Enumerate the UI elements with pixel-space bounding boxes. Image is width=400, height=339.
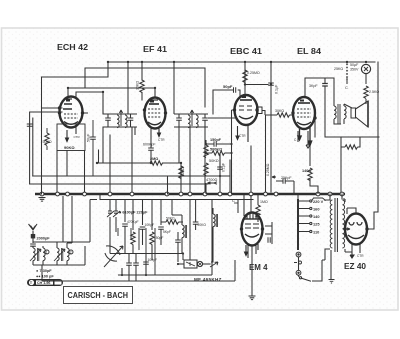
wire right B+ vertical	[377, 62, 379, 212]
resistor 2.5K field	[364, 86, 380, 104]
wire avc rail	[33, 176, 230, 194]
trimmer arrow T1	[30, 249, 41, 261]
capacitor 0.1uF decoupling	[268, 83, 278, 94]
EM4 pin arrows	[245, 244, 259, 256]
svg-text:220 V: 220 V	[313, 199, 324, 204]
capacitor grid tank	[27, 124, 33, 126]
speaker	[351, 101, 368, 127]
antenna coil T2	[57, 243, 73, 265]
svg-text:C: C	[345, 85, 348, 90]
svg-text:CH 1-96: CH 1-96	[37, 281, 50, 285]
wire screen rail	[68, 88, 155, 114]
wire antenna bottom rail	[33, 246, 85, 265]
ground at bus left	[39, 198, 46, 202]
svg-text:470KpF: 470KpF	[127, 220, 139, 224]
tube EL84	[293, 97, 315, 148]
svg-text:150pF: 150pF	[210, 138, 222, 142]
capacitor 2000pF antenna	[30, 237, 50, 249]
resistor 1M vert	[179, 166, 185, 179]
wire speaker box bottom	[325, 78, 379, 192]
svg-text:0.25MΩ: 0.25MΩ	[266, 163, 270, 176]
svg-text:2.5KΩ: 2.5KΩ	[369, 90, 379, 94]
wire EF41 screen feed	[141, 62, 143, 100]
wire under ECH42 drop	[84, 151, 86, 193]
wire screen sub rail	[85, 68, 205, 107]
svg-text:CTR: CTR	[74, 135, 81, 139]
wire osc feedback	[190, 200, 196, 261]
junction dots mid	[96, 87, 233, 276]
svg-text:CTR: CTR	[158, 138, 165, 142]
osc coil mid	[172, 208, 218, 262]
svg-text:CARISCH - BACH: CARISCH - BACH	[68, 291, 129, 300]
capacitor 3KpF tone	[309, 84, 328, 89]
svg-text:50KΩ: 50KΩ	[43, 140, 52, 144]
wire mid rail 2M	[97, 150, 181, 163]
fuse	[294, 261, 302, 264]
legend trimmers	[36, 269, 54, 279]
svg-text:140: 140	[313, 214, 320, 219]
box CARISCH-BACH	[64, 287, 133, 304]
svg-text:1: 1	[46, 251, 48, 255]
svg-text:30KΩ: 30KΩ	[136, 81, 140, 90]
wire EL84 return	[314, 120, 316, 137]
svg-text:50pF: 50pF	[223, 84, 233, 89]
voltage selector	[298, 194, 325, 250]
wire grid bus EBC	[220, 110, 235, 194]
svg-text:● 7-30pF: ● 7-30pF	[36, 269, 52, 273]
capacitor 50pF coupling	[223, 84, 236, 93]
tube rim pins	[58, 106, 369, 230]
power transformer	[322, 198, 350, 260]
svg-text:EZ 40: EZ 40	[344, 262, 367, 271]
svg-text:2000pF: 2000pF	[37, 237, 51, 241]
wire left rail 1	[30, 108, 62, 184]
wire bottom rail A	[118, 199, 212, 275]
svg-text:50μF: 50μF	[350, 63, 359, 67]
svg-text:CTR: CTR	[239, 134, 246, 138]
wire AVC upper rail	[42, 62, 109, 77]
mains terminal	[329, 280, 335, 284]
volume potentiometer	[204, 140, 212, 194]
wire osc mid rail	[110, 217, 183, 254]
svg-text:0.1μF: 0.1μF	[222, 163, 226, 172]
wire EL84 plate link	[305, 78, 334, 104]
svg-text:EF 41: EF 41	[143, 44, 167, 54]
svg-text:●● 100 pF: ●● 100 pF	[36, 275, 54, 279]
wire drop x271	[270, 86, 272, 193]
svg-text:50KΩ: 50KΩ	[166, 217, 175, 221]
capacitor 50uF 350V electrolytic	[350, 63, 371, 84]
svg-text:500KΩ: 500KΩ	[210, 148, 222, 152]
svg-text:100pF: 100pF	[148, 258, 158, 262]
padder caps row	[107, 199, 172, 260]
antenna coil T1	[33, 246, 49, 265]
logo stamp	[27, 279, 63, 286]
capacitor 600KpF	[143, 139, 156, 163]
wire EL84 grid leak	[265, 115, 267, 192]
wire low rail links	[118, 228, 155, 281]
EZ40 connections	[343, 199, 378, 255]
svg-text:EL 84: EL 84	[297, 46, 321, 56]
resistor 140 cathode EL84	[302, 138, 318, 194]
svg-text:1MΩ: 1MΩ	[181, 167, 185, 175]
resistor 2M mid	[150, 157, 163, 165]
capacitor 150pF det	[206, 138, 232, 147]
tube EZ40 rectifier	[345, 214, 367, 259]
svg-text:50KΩ: 50KΩ	[209, 159, 219, 163]
svg-text:30KΩ: 30KΩ	[275, 109, 284, 113]
svg-text:350V: 350V	[350, 68, 359, 72]
svg-text:CTR: CTR	[357, 254, 364, 258]
svg-text:ECH 42: ECH 42	[57, 42, 88, 52]
svg-text:0.25MΩ: 0.25MΩ	[247, 71, 260, 75]
resistor 500K det	[206, 148, 232, 156]
svg-text:90KΩ: 90KΩ	[64, 145, 75, 150]
wire bottom rail B	[42, 260, 235, 281]
wire grid tank gap	[29, 124, 31, 126]
ground EM4	[249, 296, 256, 300]
wire det drop 1	[219, 155, 221, 192]
oscillator grid box	[45, 120, 96, 176]
svg-text:50μF: 50μF	[87, 133, 91, 142]
wire 1M drop	[180, 163, 182, 192]
tube ECH42	[54, 97, 88, 135]
ground bus	[35, 193, 345, 196]
resistor 500K grid EL84	[262, 109, 293, 117]
EM4 feed network	[232, 195, 272, 296]
tuning gang	[104, 246, 139, 281]
resistor field coil	[341, 137, 360, 149]
resistor 50K	[45, 133, 49, 146]
wire grid-leak drop	[131, 127, 133, 192]
wire EBC cath drop	[204, 128, 206, 192]
capacitor 0.1uF af	[209, 159, 226, 176]
svg-text:125: 125	[313, 222, 320, 227]
tube EF41	[145, 98, 166, 143]
antenna	[29, 224, 38, 243]
EL84 pin arrows	[298, 127, 312, 146]
svg-text:EBC 41: EBC 41	[230, 46, 262, 56]
wire osc box drops	[57, 127, 103, 192]
svg-text:20KΩ: 20KΩ	[198, 223, 207, 227]
svg-text:140Ω: 140Ω	[302, 169, 311, 173]
svg-text:110: 110	[313, 230, 319, 235]
EBC41 pin arrows	[236, 126, 248, 142]
capacitor 50uF cathode	[90, 137, 96, 139]
svg-text:1MΩ: 1MΩ	[260, 200, 268, 204]
resistor 0.25M EBC plate	[243, 70, 260, 83]
tube EM4 magic eye	[242, 213, 263, 259]
pilot lamp 1	[296, 252, 301, 257]
wire transformer top feeds	[100, 194, 342, 200]
svg-text:0.1μF: 0.1μF	[275, 84, 279, 94]
wire IFT2 drop	[155, 88, 190, 192]
svg-text:600KpF: 600KpF	[143, 143, 156, 147]
svg-text:■ 6100pF 220pF: ■ 6100pF 220pF	[119, 211, 148, 215]
resistor 50K osc	[161, 217, 183, 225]
wire det drop 2	[229, 160, 231, 192]
IF transformer IFT2	[174, 107, 235, 135]
svg-text:5KpF: 5KpF	[163, 230, 171, 234]
wire af rail	[30, 183, 208, 185]
junction dots top rail	[67, 61, 367, 93]
svg-text:3KpF: 3KpF	[309, 84, 318, 88]
tube EBC41	[235, 95, 263, 138]
svg-text:10KpF: 10KpF	[145, 223, 155, 227]
capacitor 129KpF bypass	[272, 176, 294, 194]
svg-text:25KpF: 25KpF	[281, 176, 292, 180]
output transformer	[334, 104, 352, 124]
wire antenna coupling	[33, 200, 97, 243]
MF465 detector box	[178, 260, 218, 268]
resistor 4700 af	[206, 178, 217, 184]
ECH42 pin arrow in box	[66, 130, 69, 142]
svg-text:MF 465KHZ: MF 465KHZ	[194, 277, 222, 282]
mains switch	[299, 250, 332, 281]
wire left rail 2	[41, 77, 43, 194]
wire EBC41 plate feed	[244, 62, 246, 95]
wire IFT1 bottom drop	[109, 135, 111, 192]
wire IFT1 plate riser	[127, 62, 129, 114]
resistor 30K screen EF41	[136, 80, 145, 93]
svg-text:25KΩ: 25KΩ	[334, 67, 343, 71]
svg-text:4700Ω: 4700Ω	[206, 178, 217, 182]
resistor 25K B+ dropper	[334, 64, 348, 91]
wire grid tank to antenna coils	[57, 196, 72, 246]
EF41 pin arrow	[158, 129, 161, 137]
trimmer arrow T2	[54, 249, 65, 261]
wire IFT2 top feed	[173, 62, 175, 107]
IF transformer IFT1	[103, 100, 137, 135]
wire B+ top rail	[108, 61, 375, 63]
bus junction nodes	[40, 192, 344, 196]
capacitor 20K osc branch	[193, 222, 199, 224]
svg-text:160: 160	[313, 207, 320, 212]
pilot lamp 2	[296, 270, 301, 275]
wire decoupling cap drop	[213, 63, 271, 114]
wire EBC pins drop	[250, 146, 252, 192]
svg-text:2: 2	[70, 251, 72, 255]
svg-text:C: C	[232, 198, 235, 203]
capacitor 100pF osc	[143, 254, 157, 276]
